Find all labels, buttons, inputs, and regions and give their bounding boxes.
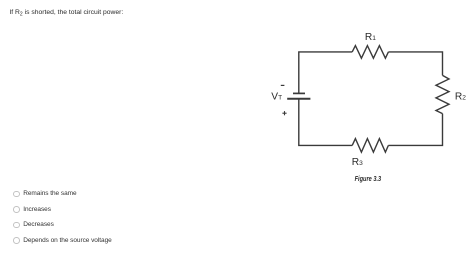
resistor R1 (352, 46, 388, 59)
battery VT positive plate (long) (287, 98, 310, 100)
svg-text:R2: R2 (455, 91, 466, 102)
svg-text:R1: R1 (365, 32, 376, 43)
option 1 text (23, 190, 76, 197)
resistor R3 (352, 139, 388, 153)
question text (9, 9, 123, 18)
svg-text:VT: VT (271, 92, 282, 103)
battery minus sign (281, 84, 285, 86)
wire: battery top terminal up and across to R1 (299, 52, 352, 94)
resistor R2 (436, 75, 449, 113)
option 3 radio (13, 222, 20, 229)
battery plus sign (282, 112, 286, 114)
option 3 text (23, 221, 54, 228)
option 4 text (23, 237, 112, 244)
wire: R3 to bottom-left corner up to battery bottom terminal (299, 99, 352, 146)
battery VT negative plate (short) (293, 92, 305, 94)
option 1 radio (13, 191, 20, 198)
wire: R2 down to bottom-right corner across to R3 (388, 114, 442, 146)
wire: R1 to top-right corner down to R2 (388, 52, 442, 76)
option 2 radio (13, 206, 20, 213)
option 2 text (23, 206, 51, 213)
option 4 radio (13, 237, 20, 244)
svg-text:Figure 3.3: Figure 3.3 (355, 176, 382, 183)
svg-text:R3: R3 (352, 157, 363, 168)
